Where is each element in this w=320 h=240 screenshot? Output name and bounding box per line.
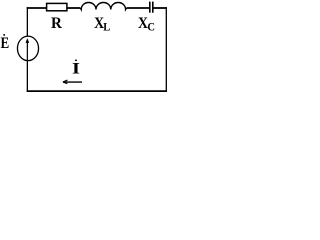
- label E dot: [3, 34, 5, 36]
- svg-text:L: L: [103, 21, 110, 33]
- EMF source E (circle): [17, 36, 38, 61]
- resistor R: [47, 3, 67, 10]
- capacitor XC right plate: [152, 2, 154, 13]
- svg-text:C: C: [147, 20, 155, 34]
- wire right rail and bottom rail: [153, 7, 167, 9]
- label I dot: [75, 59, 77, 61]
- wire resistor to inductor: [68, 7, 81, 9]
- capacitor XC left plate: [149, 2, 151, 13]
- source arrow shaft: [26, 40, 28, 61]
- inductor XL: [80, 2, 126, 9]
- svg-text:I: I: [72, 61, 80, 78]
- current arrow shaft: [64, 81, 83, 83]
- svg-text:R: R: [51, 15, 63, 32]
- current arrow head: [63, 80, 68, 84]
- source arrow head: [26, 38, 30, 43]
- wire inductor to capacitor: [127, 7, 150, 9]
- wire top-left (left rail upper + top rail to resistor): [27, 7, 47, 9]
- svg-text:E: E: [0, 35, 9, 52]
